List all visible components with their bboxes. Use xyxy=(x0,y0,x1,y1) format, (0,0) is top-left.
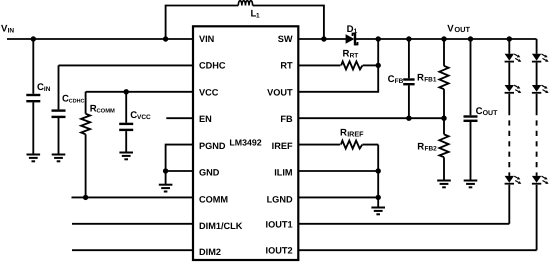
ground COUT xyxy=(464,181,478,188)
wire LGND pin xyxy=(298,196,378,198)
svg-text:R: R xyxy=(343,48,350,59)
ground PGND/GND xyxy=(159,185,173,192)
node CVCC/VCC xyxy=(124,89,129,94)
capacitor CIN plates xyxy=(26,95,40,101)
node RRT out xyxy=(376,63,381,68)
svg-text:OUT: OUT xyxy=(483,110,499,117)
resistor RIREF xyxy=(341,141,362,149)
diode D1 schottky xyxy=(346,33,358,46)
svg-text:IREF: IREF xyxy=(272,141,293,151)
wire RIREF to node xyxy=(362,144,378,146)
capacitor CFB leads xyxy=(408,39,410,118)
capacitor CCDHC plates xyxy=(52,111,66,117)
LED D2 xyxy=(505,54,522,62)
svg-text:ILIM: ILIM xyxy=(274,168,293,178)
wire L1 loop right leg xyxy=(253,6,324,40)
capacitor CVCC plates xyxy=(119,124,133,130)
svg-text:FB: FB xyxy=(280,114,293,124)
svg-text:GND: GND xyxy=(199,168,220,178)
svg-text:C: C xyxy=(388,74,395,85)
node RFB1 top xyxy=(441,36,446,41)
svg-text:IOUT2: IOUT2 xyxy=(266,245,293,255)
svg-text:D: D xyxy=(347,24,354,35)
svg-text:RT: RT xyxy=(350,52,359,59)
wire VOUT pin up to rail xyxy=(298,39,378,92)
svg-text:1: 1 xyxy=(354,28,358,35)
LED string 2 wires xyxy=(536,39,538,250)
svg-text:R: R xyxy=(340,127,347,138)
ground RIREF/ILIM/LGND xyxy=(371,208,385,215)
wire D1 cathode to rail end xyxy=(356,38,537,40)
svg-text:FB2: FB2 xyxy=(425,145,438,152)
node RFB2 top FB xyxy=(441,116,446,121)
wire VIN rail xyxy=(7,38,193,40)
svg-text:DIM1/CLK: DIM1/CLK xyxy=(199,221,243,231)
capacitor CCDHC leads xyxy=(58,65,60,154)
wire IOUT2 pin xyxy=(298,249,536,251)
resistor RFB1 leads xyxy=(443,39,445,118)
svg-text:VCC: VCC xyxy=(199,87,219,97)
wire CDHC pin xyxy=(59,64,194,66)
svg-text:DIM2: DIM2 xyxy=(199,247,221,257)
wire PGND GND to ground xyxy=(165,171,167,184)
node LED string1 top xyxy=(507,36,512,41)
inductor L1 xyxy=(238,1,252,6)
svg-text:R: R xyxy=(417,141,424,152)
node D1/VOUT rail xyxy=(376,36,381,41)
LED string 1 wires xyxy=(508,39,510,224)
svg-text:EN: EN xyxy=(199,114,212,124)
wire DIM1/CLK pin xyxy=(72,223,193,225)
node L1 right SW xyxy=(321,36,326,41)
resistor RRT xyxy=(341,61,362,69)
wire EN stub xyxy=(166,117,193,119)
svg-text:V: V xyxy=(447,23,454,34)
svg-text:SW: SW xyxy=(278,34,293,44)
svg-text:COMM: COMM xyxy=(199,194,228,204)
wire L1 loop left leg xyxy=(166,6,239,40)
wire FB pin xyxy=(298,117,444,119)
resistor RFB2 leads xyxy=(443,118,445,180)
IC pin labels xyxy=(199,34,293,257)
capacitor CVCC leads xyxy=(125,92,127,153)
ground CCDHC xyxy=(52,155,66,162)
svg-text:LM3492: LM3492 xyxy=(229,138,261,148)
wire COMM pin xyxy=(72,196,194,198)
wire IREF pin xyxy=(298,144,340,146)
svg-text:LGND: LGND xyxy=(267,194,293,204)
wire RRT to node xyxy=(363,64,379,66)
ground CVCC xyxy=(119,153,133,160)
svg-text:VIN: VIN xyxy=(199,34,215,44)
svg-text:FB1: FB1 xyxy=(424,77,437,84)
IC U1 LM3492 body xyxy=(193,26,298,260)
node CIN/VIN xyxy=(31,36,36,41)
LED D3 xyxy=(505,85,522,93)
svg-text:IOUT1: IOUT1 xyxy=(266,220,293,230)
capacitor COUT plates xyxy=(464,117,478,121)
svg-text:VCC: VCC xyxy=(137,114,151,121)
wire IOUT1 pin xyxy=(298,223,509,225)
svg-text:C: C xyxy=(476,106,483,117)
resistor RFB2 xyxy=(439,134,448,157)
ground RFB2 xyxy=(437,181,451,188)
LED D5 xyxy=(532,54,549,62)
resistor RCOMM xyxy=(81,114,90,135)
wire ILIM pin xyxy=(298,170,378,172)
node L1 left xyxy=(163,36,168,41)
svg-text:OUT: OUT xyxy=(454,25,470,34)
capacitor COUT leads xyxy=(470,39,472,180)
svg-text:IN: IN xyxy=(8,27,15,34)
LED D4 xyxy=(505,176,522,184)
svg-text:CDHC: CDHC xyxy=(69,99,85,105)
svg-text:1: 1 xyxy=(256,13,260,20)
node ILIM xyxy=(376,168,381,173)
resistor RFB1 xyxy=(439,66,448,89)
svg-text:IN: IN xyxy=(44,86,51,93)
svg-text:IREF: IREF xyxy=(347,129,364,138)
wire DIM2 pin xyxy=(72,249,193,251)
wire SW to D1 anode xyxy=(298,38,346,40)
wire node vertical ILIM LGND to ground xyxy=(377,145,379,208)
node CFB top xyxy=(406,36,411,41)
svg-text:VOUT: VOUT xyxy=(267,87,293,97)
wire VCC pin xyxy=(86,91,193,93)
wire RT pin xyxy=(298,64,340,66)
svg-text:FB: FB xyxy=(395,78,404,85)
ground CIN xyxy=(27,155,41,162)
LED D6 xyxy=(532,85,549,93)
capacitor CIN leads xyxy=(32,39,34,154)
svg-text:PGND: PGND xyxy=(199,141,226,151)
capacitor CFB plates xyxy=(403,80,414,85)
node GND xyxy=(163,168,168,173)
wire PGND pin xyxy=(166,145,193,171)
node LGND xyxy=(376,195,381,200)
LED D7 xyxy=(532,176,549,184)
svg-text:CDHC: CDHC xyxy=(199,61,226,71)
node CFB bottom FB xyxy=(406,116,411,121)
svg-text:RT: RT xyxy=(280,61,293,71)
node COUT top xyxy=(468,36,473,41)
svg-text:R: R xyxy=(417,73,424,84)
resistor RCOMM leads xyxy=(85,92,87,198)
svg-text:COMM: COMM xyxy=(97,108,116,115)
wire GND pin xyxy=(166,170,193,172)
node RCOMM/COMM xyxy=(83,195,88,200)
